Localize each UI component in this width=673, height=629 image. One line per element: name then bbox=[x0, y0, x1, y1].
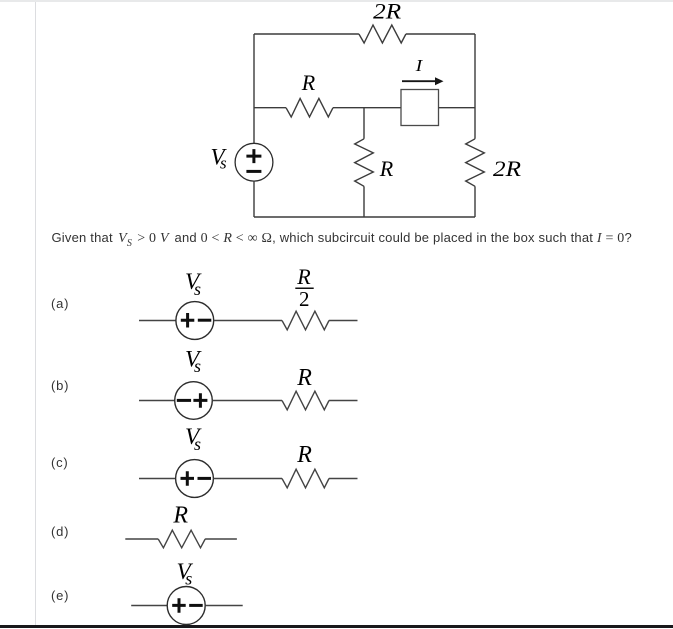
option (d): right wire bbox=[205, 538, 237, 540]
box: subcircuit placeholder bbox=[401, 90, 439, 126]
option (b): right wire bbox=[329, 400, 358, 402]
option (a): left wire bbox=[139, 320, 176, 322]
svg-text:s: s bbox=[194, 434, 201, 454]
resistor 2R (top rail) bbox=[359, 25, 406, 43]
svg-text:s: s bbox=[220, 154, 227, 173]
option (b): voltage source circle bbox=[175, 382, 213, 420]
resistor 2R (right branch) bbox=[466, 139, 485, 186]
svg-text:2R: 2R bbox=[493, 156, 522, 181]
option label (b) bbox=[51, 379, 69, 392]
option label (d) bbox=[51, 525, 69, 538]
current arrow I bbox=[402, 80, 437, 82]
option (b): resistor R bbox=[282, 391, 329, 410]
wire: middle rail right of box bbox=[439, 107, 476, 109]
option (a): resistor R/2 bbox=[282, 311, 329, 330]
svg-text:s: s bbox=[194, 356, 201, 376]
wire: middle rail between resistor and box bbox=[333, 107, 401, 109]
svg-text:R: R bbox=[296, 264, 311, 289]
option (e): right wire bbox=[205, 605, 243, 607]
option (c): resistor R bbox=[282, 469, 329, 488]
wire: middle branch upper lead bbox=[363, 108, 365, 139]
option (c): voltage source circle bbox=[176, 460, 214, 498]
resistor R (middle rail) bbox=[286, 98, 333, 117]
question text bbox=[52, 231, 632, 249]
option (b): middle wire bbox=[212, 400, 282, 402]
option (e): voltage source circle bbox=[167, 587, 205, 625]
wire: bottom rail bbox=[254, 216, 475, 218]
wire: top rail left lead bbox=[254, 33, 359, 35]
option (d): left wire bbox=[125, 538, 158, 540]
option (e): left wire bbox=[131, 605, 167, 607]
svg-text:s: s bbox=[194, 279, 201, 299]
wire: right vertical upper segment bbox=[474, 34, 476, 139]
option label (e) bbox=[51, 589, 69, 602]
option (c): left wire bbox=[139, 478, 176, 480]
svg-text:I: I bbox=[415, 56, 425, 75]
resistor R (middle branch) bbox=[355, 139, 374, 186]
svg-text:R: R bbox=[301, 70, 316, 95]
option (c): right wire bbox=[329, 478, 358, 480]
wire: right vertical lower segment bbox=[474, 186, 476, 217]
voltage source Vs (main circuit) bbox=[235, 143, 273, 181]
wire: middle rail left lead bbox=[254, 107, 286, 109]
option label (c) bbox=[51, 456, 69, 469]
option (d): resistor R bbox=[158, 530, 205, 548]
option (b): left wire bbox=[139, 400, 175, 402]
svg-text:R: R bbox=[296, 442, 312, 468]
svg-text:R: R bbox=[296, 365, 312, 391]
svg-text:2: 2 bbox=[299, 287, 310, 311]
option (a): right wire bbox=[329, 320, 358, 322]
wire: vs branch lower segment bbox=[253, 181, 255, 217]
svg-text:2R: 2R bbox=[373, 0, 402, 23]
wire: top-left vertical segment of outer loop bbox=[253, 34, 255, 143]
svg-text:R: R bbox=[172, 502, 188, 528]
svg-text:R: R bbox=[379, 156, 394, 181]
option (a): voltage source circle bbox=[176, 302, 214, 340]
wire: middle branch lower lead bbox=[363, 186, 365, 217]
svg-text:s: s bbox=[185, 569, 192, 589]
option (c): middle wire bbox=[213, 478, 282, 480]
option label (a) bbox=[51, 297, 69, 310]
wire: top rail right lead bbox=[406, 33, 475, 35]
option (a): middle wire bbox=[214, 320, 282, 322]
